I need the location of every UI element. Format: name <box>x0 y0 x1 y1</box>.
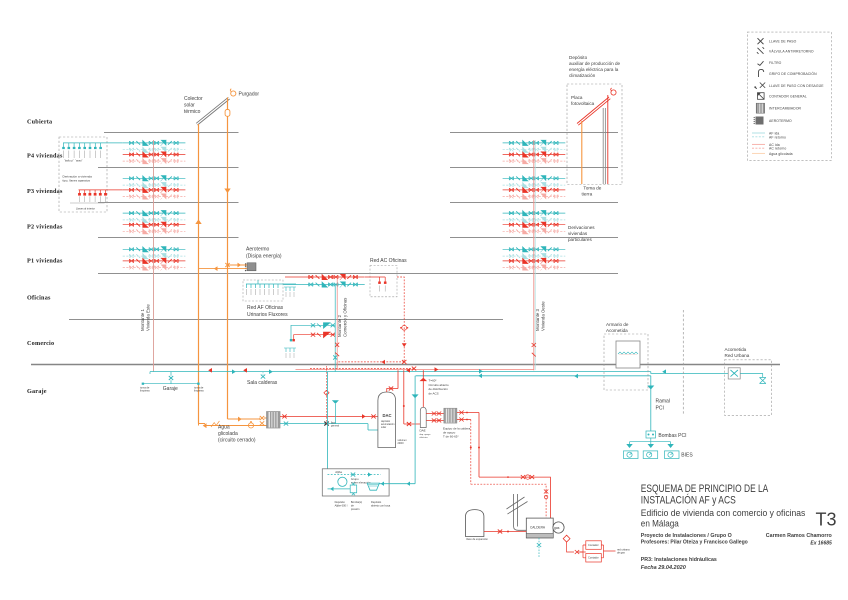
chimney <box>514 494 518 527</box>
discharge line <box>328 488 351 490</box>
expansion capsule on solar return <box>225 110 230 117</box>
svg-text:dep. apoyo: dep. apoyo <box>420 434 432 436</box>
ramal PCI drop <box>650 376 652 431</box>
valve on aerotermo supply <box>225 263 229 267</box>
arrow glycol return <box>203 423 207 428</box>
svg-text:(circuito cerrado): (circuito cerrado) <box>218 438 256 444</box>
legend AC ida <box>752 143 765 145</box>
valve battery P1 left (llaves, antirretorno, contadores) <box>123 246 186 270</box>
svg-text:Toma de: Toma de <box>583 185 601 190</box>
DAC tank <box>378 392 396 448</box>
bombas PCI unit <box>646 431 656 438</box>
AF manifold to P4 dwelling (comb) <box>63 143 123 148</box>
acometida dashed parcel line <box>682 310 684 415</box>
legend AC retorno <box>752 147 765 149</box>
svg-text:Bombas PCI: Bombas PCI <box>658 433 686 439</box>
DAE to exchanger2 pipes <box>426 414 444 421</box>
svg-text:Red AC Oficinas: Red AC Oficinas <box>370 258 407 264</box>
DAE connection <box>404 423 421 425</box>
svg-text:Aljibe: Aljibe <box>335 470 342 474</box>
AF bus secondary <box>416 375 651 377</box>
svg-text:GRIFO DE COMPROBACIÓN: GRIFO DE COMPROBACIÓN <box>769 71 817 76</box>
caldera <box>526 518 553 538</box>
svg-text:Urinarios Fluxores: Urinarios Fluxores <box>247 312 288 318</box>
grupo de presion box <box>322 469 389 496</box>
flow arrow up on solar flow <box>195 219 201 224</box>
svg-text:INTERCAMBIADOR: INTERCAMBIADOR <box>769 106 802 110</box>
oficinas ACS branch row <box>285 276 302 278</box>
svg-text:CONTADOR GENERAL: CONTADOR GENERAL <box>769 95 807 99</box>
svg-text:Profesores: Pilar Oteiza y Fra: Profesores: Pilar Oteiza y Francisco Gal… <box>641 540 748 546</box>
aerotermo return pipe <box>199 268 248 270</box>
valve at bottom of retorno <box>402 360 406 364</box>
svg-text:Comercio y Oficinas: Comercio y Oficinas <box>343 297 348 337</box>
BIES cabinet <box>643 451 658 459</box>
fixture name ticks P4 <box>64 151 101 159</box>
svg-text:auxiliar de producción de: auxiliar de producción de <box>569 61 621 66</box>
svg-text:climatización: climatización <box>569 73 596 78</box>
aerotermo unit <box>247 263 256 271</box>
svg-text:presión: presión <box>351 507 360 511</box>
vaso pipe to caldera <box>484 531 526 533</box>
vent triangle on AF <box>332 400 339 404</box>
montante 1 viviendas este <box>153 140 155 371</box>
caldera flow line <box>479 477 550 519</box>
svg-text:Depósito: Depósito <box>335 500 346 504</box>
svg-text:INSTALACIÓN AF y ACS: INSTALACIÓN AF y ACS <box>641 493 736 506</box>
legend V&#193;LVULA ANTIRRETORNO <box>757 47 764 54</box>
AF bus cyan main <box>150 371 651 373</box>
BIES drop arrow <box>626 444 632 448</box>
flow arrow down on solar return <box>224 189 230 194</box>
dashed box placa fotovoltaica <box>567 84 622 185</box>
svg-text:solar: solar <box>184 103 195 109</box>
floor line P4/P3 <box>98 167 618 169</box>
purge circle on PV <box>611 90 616 95</box>
legend Agua glicolada <box>752 152 765 154</box>
valve battery P4 left (llaves, antirretorno, contadores) <box>123 140 186 164</box>
svg-text:Ramal: Ramal <box>656 399 670 405</box>
svg-text:Placa: Placa <box>571 95 583 100</box>
svg-text:Bomba(s): Bomba(s) <box>351 500 362 504</box>
svg-text:Fecha 29.04.2020: Fecha 29.04.2020 <box>641 565 686 571</box>
svg-text:P3 viviendas: P3 viviendas <box>27 188 63 195</box>
valve battery P3 left (llaves, antirretorno, contadores) <box>123 175 186 199</box>
svg-text:limpieza: limpieza <box>140 389 150 393</box>
svg-text:Depósito: Depósito <box>371 500 382 504</box>
svg-text:“baño p” “aseo”: “baño p” “aseo” <box>64 159 83 163</box>
arrow on aerotermo return <box>214 266 218 271</box>
DAE tank <box>420 407 426 427</box>
svg-text:Aerotermo: Aerotermo <box>246 247 270 253</box>
colector solar panel <box>196 97 229 125</box>
svg-text:Contador: Contador <box>588 556 599 560</box>
svg-text:ESQUEMA DE PRINCIPIO DE LA: ESQUEMA DE PRINCIPIO DE LA <box>641 483 769 495</box>
PV electric conduit <box>602 108 604 184</box>
BIES cabinet <box>665 451 680 459</box>
svg-text:general: general <box>331 424 339 427</box>
PV glycol pipe <box>581 121 583 184</box>
ACS return dashed riser oficinas <box>397 277 404 362</box>
svg-text:eléctrico: eléctrico <box>420 436 429 439</box>
svg-text:LLAVE DE PASO CON DESAGÜE: LLAVE DE PASO CON DESAGÜE <box>769 84 824 88</box>
svg-text:VÁLVULA ANTIRRETORNO: VÁLVULA ANTIRRETORNO <box>769 49 814 53</box>
red arrow on bus <box>435 367 439 372</box>
general shutoff dark valve <box>324 422 328 426</box>
BIES drop arrow <box>648 444 654 448</box>
montante3 bus corner <box>533 369 535 371</box>
sala calderas valve <box>261 375 265 379</box>
floor line Oficinas/Comercio <box>69 319 503 321</box>
svg-text:Sala calderas: Sala calderas <box>247 380 278 386</box>
svg-text:Proyecto de Instalaciones / Gr: Proyecto de Instalaciones / Grupo O <box>641 533 732 539</box>
retorno pump symbol <box>402 325 407 330</box>
arrow glycol flow <box>238 417 242 422</box>
svg-text:Depósito: Depósito <box>569 55 588 60</box>
detail box derivacion a vivienda tipo <box>59 137 107 212</box>
legend LLAVE DE PASO <box>758 38 764 44</box>
svg-text:Red Urbana: Red Urbana <box>725 353 750 358</box>
cold return DAC to exchanger <box>280 424 378 430</box>
svg-text:Agua glicolada: Agua glicolada <box>769 152 793 156</box>
svg-text:Comercio: Comercio <box>27 340 54 347</box>
svg-text:Oficinas: Oficinas <box>27 294 51 301</box>
svg-text:Colector: Colector <box>184 96 203 102</box>
svg-text:gas: gas <box>554 526 560 530</box>
intercambiador caldera apoyo <box>444 408 457 423</box>
svg-text:DAE: DAE <box>420 429 426 433</box>
glycol return from exchanger <box>199 424 267 426</box>
ACS manifold to P3 dwelling (comb) <box>79 190 123 194</box>
svg-text:LLAVE DE PASO: LLAVE DE PASO <box>769 40 797 44</box>
legend INTERCAMBIADOR <box>756 103 764 113</box>
svg-text:abierto con boya: abierto con boya <box>371 503 391 507</box>
garaje valve <box>169 376 173 380</box>
contador gas box 1 <box>586 541 602 550</box>
floor line P3/P2 <box>98 202 618 204</box>
valve on montante 3 <box>532 343 536 347</box>
svg-text:particulares: particulares <box>568 237 592 242</box>
svg-text:P2 viviendas: P2 viviendas <box>27 223 63 230</box>
membrane vessel <box>350 485 357 493</box>
svg-text:Acometida: Acometida <box>725 347 747 352</box>
svg-text:Garaje: Garaje <box>27 388 47 395</box>
svg-text:(Disipa energía): (Disipa energía) <box>246 254 282 260</box>
cyan stub into box <box>258 280 296 284</box>
svg-text:tierra: tierra <box>582 191 593 196</box>
svg-text:AF retorno: AF retorno <box>769 135 786 139</box>
svg-text:AC retorno: AC retorno <box>769 147 786 151</box>
svg-text:térmico: térmico <box>184 109 201 115</box>
svg-text:glicolada: glicolada <box>218 431 238 437</box>
dashed box red AC oficinas <box>370 265 397 296</box>
valves on montante2 lower <box>335 343 339 347</box>
aerotermo supply pipe <box>228 264 248 266</box>
svg-text:Vivienda Este: Vivienda Este <box>146 304 151 331</box>
glycol pump <box>248 423 253 428</box>
valve battery P3 right (llaves, antirretorno, contadores) <box>503 175 566 199</box>
floor line Cubierta <box>104 132 618 134</box>
valve battery P2 left (llaves, antirretorno, contadores) <box>123 210 186 234</box>
legend AF ida <box>752 132 765 134</box>
ACS riser to bus <box>403 370 405 424</box>
svg-text:FILTRO: FILTRO <box>769 61 782 65</box>
svg-text:sobre elevación: sobre elevación <box>351 481 371 485</box>
svg-text:T3: T3 <box>816 510 837 530</box>
svg-text:fotovoltaica: fotovoltaica <box>571 101 595 106</box>
ventosa symbol <box>760 378 766 384</box>
svg-text:Acometida: Acometida <box>606 328 628 333</box>
BIES distribution <box>630 438 671 444</box>
bus flow arrows <box>208 368 212 373</box>
T60 pump marker <box>420 378 428 381</box>
meter squiggle <box>618 352 638 354</box>
svg-text:2000 l: 2000 l <box>398 442 405 445</box>
dashed box acometida <box>725 360 772 416</box>
floor line P2/P1 <box>98 237 618 239</box>
AF down to grupo presion <box>327 372 329 469</box>
ACS distribution riser to DAE <box>422 370 424 407</box>
dashed box red AF oficinas urinarios fluxores <box>243 280 283 301</box>
svg-text:energía eléctrica para la: energía eléctrica para la <box>569 67 619 72</box>
valve battery P4 right (llaves, antirretorno, contadores) <box>503 140 566 164</box>
svg-text:Llaves al interior: Llaves al interior <box>76 207 95 211</box>
legend GRIFO DE COMPROBACI&#211;N <box>759 69 764 77</box>
svg-text:Montante 3: Montante 3 <box>535 308 540 331</box>
armario inner box <box>616 341 640 368</box>
legend box <box>747 32 831 160</box>
svg-text:Derivaciones: Derivaciones <box>568 225 595 230</box>
svg-text:Vaso de expansión: Vaso de expansión <box>466 537 488 541</box>
svg-text:Armario de: Armario de <box>606 322 629 327</box>
svg-text:PCI: PCI <box>656 406 664 412</box>
valve battery P2 right (llaves, antirretorno, contadores) <box>503 210 566 234</box>
AF feed dashed red companion <box>326 366 328 424</box>
svg-text:Purgador: Purgador <box>239 92 260 98</box>
legend LLAVE DE PASO CON DESAG&#220;E <box>754 83 765 89</box>
vaso de expansion <box>466 510 484 537</box>
arrow to aerotermo <box>238 263 242 268</box>
tank feed from acometida <box>379 376 415 484</box>
open tank trapezoid <box>367 483 379 490</box>
valve battery P1 right (llaves, antirretorno, contadores) <box>503 246 566 270</box>
montante 2 risers <box>334 285 336 372</box>
AC oficinas drops <box>365 277 385 282</box>
svg-text:CALDERA: CALDERA <box>530 526 546 530</box>
svg-text:Carmen Ramos Chamorro: Carmen Ramos Chamorro <box>766 533 832 539</box>
contador gas box 2 <box>586 554 602 563</box>
purgador symbol <box>231 91 236 96</box>
legend AEROTERMO <box>756 117 764 125</box>
placa fotovoltaica panel <box>577 97 610 125</box>
svg-text:de gas: de gas <box>617 551 625 555</box>
svg-text:de ACS: de ACS <box>429 391 439 395</box>
floor line Comercio/Garaje <box>31 364 780 366</box>
svg-text:BIES: BIES <box>681 453 693 459</box>
svg-text:Ex 16685: Ex 16685 <box>810 541 832 547</box>
AF oficinas manifold comb <box>246 284 280 288</box>
legend FILTRO <box>758 61 764 65</box>
red dashed return along bus <box>310 368 414 370</box>
DAC top outlet <box>387 370 398 392</box>
AF inlet triangle <box>324 470 331 474</box>
svg-text:Agua: Agua <box>218 425 230 431</box>
svg-text:P1 viviendas: P1 viviendas <box>27 257 63 264</box>
svg-text:viviendas: viviendas <box>568 231 588 236</box>
comercio ACS row <box>294 335 311 340</box>
solar flow riser (montante solar 1) <box>198 124 200 424</box>
svg-text:limpieza: limpieza <box>194 389 204 393</box>
svg-text:Contador: Contador <box>588 543 599 547</box>
caldera drain <box>538 538 540 558</box>
intercambiador solar <box>267 412 281 429</box>
gas diamond <box>563 535 570 542</box>
solar return riser (montante solar 2) <box>227 98 229 420</box>
vent triangle on feed <box>412 394 419 398</box>
svg-text:Garaje: Garaje <box>163 386 178 392</box>
svg-text:Montante 2: Montante 2 <box>337 314 342 337</box>
svg-text:Edificio de vivienda con comer: Edificio de vivienda con comercio y ofic… <box>641 508 806 519</box>
svg-text:AEROTERMO: AEROTERMO <box>769 119 792 123</box>
dashed suction line <box>328 474 381 476</box>
oficinas AF branch row <box>283 284 302 286</box>
glycol valve return side <box>260 421 264 425</box>
svg-text:Red AF Oficinas: Red AF Oficinas <box>247 305 284 311</box>
svg-text:en Málaga: en Málaga <box>641 519 680 530</box>
legend CONTADOR GENERAL <box>758 93 765 100</box>
svg-text:Montante 1: Montante 1 <box>140 308 145 331</box>
glycol flow to exchanger <box>228 418 261 420</box>
montante 3 viviendas oeste <box>533 140 535 370</box>
PV hot pipe <box>607 95 609 184</box>
garaje feed line <box>143 372 199 384</box>
floor line P1/Oficinas <box>98 273 618 275</box>
svg-text:T de 60-65°: T de 60-65° <box>443 435 459 439</box>
svg-text:de: de <box>351 503 354 507</box>
hot out of exchanger to DAC <box>280 415 378 417</box>
svg-text:solar: solar <box>381 426 386 429</box>
pipe break squiggle <box>211 421 219 427</box>
svg-text:tipo, llaves aparatos: tipo, llaves aparatos <box>63 179 91 183</box>
exchanger2 right pipes <box>457 413 479 478</box>
svg-text:Vivienda Oeste: Vivienda Oeste <box>541 301 546 331</box>
gas meter circle <box>553 522 564 533</box>
comercio AF row <box>291 325 311 340</box>
retorno dashed horizontal to montante2 <box>337 362 404 370</box>
glycol valve hot side <box>260 416 264 420</box>
svg-text:PR3: Instalaciones hidráulicas: PR3: Instalaciones hidráulicas <box>641 557 717 563</box>
legend AF retorno <box>752 136 765 138</box>
BIES drop arrow <box>667 444 673 448</box>
arqueta box with valve <box>728 368 740 379</box>
gas pipe to contadores <box>567 542 586 552</box>
svg-text:Aljibe 600 l: Aljibe 600 l <box>335 503 348 507</box>
svg-text:Cubierta: Cubierta <box>27 118 52 125</box>
retorno check arrow <box>402 343 407 347</box>
pump circle <box>338 477 347 486</box>
comercio fixtures comb <box>284 287 296 291</box>
fixture ticks P3 <box>80 196 106 202</box>
acometida pipe <box>740 373 763 377</box>
svg-text:DAC: DAC <box>383 413 392 418</box>
BIES cabinet <box>624 451 639 459</box>
caldera return dashed <box>471 484 546 518</box>
svg-text:P4 viviendas: P4 viviendas <box>27 152 63 159</box>
ACS bus red <box>296 368 534 370</box>
dashed box armario <box>604 334 648 390</box>
